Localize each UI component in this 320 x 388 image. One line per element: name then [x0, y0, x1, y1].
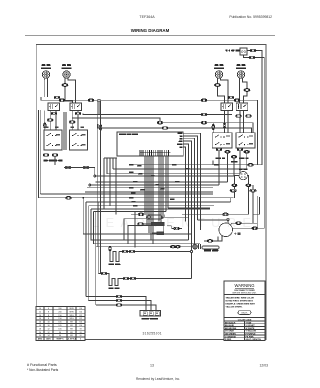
EOC right wires [183, 133, 200, 250]
wires small boxes to infinite switches left [50, 110, 78, 150]
interior fan wire [96, 246, 198, 248]
svg-text:150: 150 [58, 318, 61, 320]
wire left feeder a [38, 110, 40, 198]
diagram frame [36, 45, 266, 340]
broil feed connector [109, 246, 111, 251]
svg-text:90: 90 [59, 332, 61, 334]
latch small box [157, 232, 164, 235]
interior fan body [202, 246, 219, 249]
motor label [234, 233, 240, 235]
svg-text:16: 16 [39, 318, 41, 320]
svg-text:#12: #12 [79, 318, 82, 320]
svg-text:SEW: SEW [69, 311, 74, 313]
wire RR leads [218, 78, 229, 103]
wire oven light return [244, 55, 265, 228]
svg-text:105: 105 [58, 322, 61, 324]
surface unit RF [42, 71, 49, 80]
terminal block [140, 311, 161, 317]
svg-text:GN-YL: GN-YL [241, 313, 248, 315]
switch terminal labels left [45, 127, 84, 128]
latch connector right [171, 227, 182, 230]
svg-text:Y YELLOW: Y YELLOW [246, 331, 256, 333]
svg-text:10: 10 [47, 325, 49, 327]
oven light box [240, 48, 247, 55]
svg-text:V VIOLET: V VIOLET [246, 325, 256, 327]
svg-text:WARNING: WARNING [234, 283, 254, 288]
bake right wire [120, 278, 192, 280]
bus y114 [83, 114, 232, 115]
node broil bake [190, 250, 192, 278]
svg-text:SRG: SRG [69, 315, 74, 317]
label electronic oven control [119, 133, 138, 135]
svg-text:#10: #10 [79, 322, 82, 324]
bake element label [109, 288, 120, 290]
warning title underline [235, 287, 254, 289]
EOC pin header comb [140, 150, 171, 156]
svg-text:#6: #6 [79, 335, 81, 337]
svg-text:NOTED FIRST, STRIPE NEXT.: NOTED FIRST, STRIPE NEXT. [226, 301, 254, 303]
color code table [224, 321, 265, 341]
svg-text:SRG: SRG [69, 318, 74, 320]
svg-text:12: 12 [47, 328, 49, 330]
oven sensor connector [138, 213, 144, 216]
svg-text:BU BLUE: BU BLUE [225, 325, 235, 327]
svg-text:O ORANGE: O ORANGE [225, 335, 237, 338]
surface unit LR label [237, 64, 246, 66]
svg-text:AWG: AWG [46, 338, 51, 341]
connectors on bus y122 [157, 121, 207, 124]
svg-text:GY GRAY: GY GRAY [225, 330, 235, 333]
bake feed connector [101, 272, 107, 275]
wire RF leads [45, 78, 48, 97]
connector motor right [252, 227, 258, 230]
EOC right pin labels [177, 133, 183, 148]
wire switch drops to mesh [97, 101, 100, 274]
stub wire x213 [212, 123, 215, 133]
svg-text:TEMP°C: TEMP°C [56, 339, 64, 341]
connector on oven light feed [250, 49, 256, 52]
svg-text:18: 18 [39, 325, 41, 327]
svg-text:10: 10 [39, 308, 41, 310]
footer functional parts [27, 363, 59, 372]
connector row below left infinite switches [43, 154, 89, 169]
oven light label [226, 50, 241, 52]
mesh bus wires [39, 165, 263, 212]
connector row below right infinite switches [216, 148, 249, 158]
wire switch drop d [55, 156, 95, 175]
svg-text:8: 8 [48, 311, 49, 313]
lamp connectors small [232, 184, 251, 187]
color code entries [225, 321, 262, 341]
warning title [233, 283, 257, 295]
surface unit RF label [42, 64, 51, 66]
switch LF contacts box [70, 103, 82, 110]
warning box [224, 281, 265, 341]
svg-text:8: 8 [48, 318, 49, 320]
svg-text:UL STYLE: UL STYLE [67, 339, 77, 341]
right bundle verticals [213, 151, 247, 185]
node on bus L1 [98, 99, 100, 114]
broil feed wire [109, 247, 111, 252]
svg-text:6: 6 [48, 308, 49, 310]
right lower verticals [231, 196, 260, 228]
infinite switch RF box [44, 130, 62, 150]
svg-text:16: 16 [39, 322, 41, 324]
svg-text:YELLOW STRIPE.: YELLOW STRIPE. [226, 307, 243, 309]
wire left feeder c [44, 111, 46, 131]
motor top right wire [231, 223, 258, 224]
wire gauge table text [38, 308, 82, 341]
lamp connectors large [230, 189, 256, 192]
bake element [109, 279, 120, 286]
connectors on bus y114 [201, 113, 207, 116]
terminal feed connectors [116, 295, 122, 306]
surface unit RR label [215, 64, 224, 66]
terminal block label [142, 318, 159, 320]
svg-text:Publication No. 5995399812: Publication No. 5995399812 [229, 15, 272, 19]
connector on sensor right wire [223, 213, 229, 216]
motor node [198, 219, 230, 224]
infinite switch LF box [70, 130, 88, 150]
svg-text:BR BROWN: BR BROWN [225, 328, 237, 330]
broil right wire [119, 251, 190, 253]
broil element label [109, 264, 121, 266]
svg-text:13: 13 [150, 364, 154, 368]
connector on oven light return [249, 56, 255, 59]
latch interlock connector [138, 223, 144, 226]
header rule [25, 35, 275, 37]
wires small boxes to infinite switches right [225, 110, 244, 132]
wire left feeder b [39, 110, 41, 194]
wire oven light feed [247, 51, 262, 165]
switch LR contacts box [236, 103, 248, 110]
surface unit RR [215, 71, 222, 80]
wire LF leads [65, 78, 76, 103]
connector row mid left [44, 112, 102, 130]
svg-text:Rendered by LeadVenture, Inc.: Rendered by LeadVenture, Inc. [136, 377, 180, 381]
svg-text:12/03: 12/03 [260, 364, 269, 368]
warning paragraph [226, 297, 256, 309]
broil element [110, 252, 119, 262]
svg-text:GN-YL GRN/YEL: GN-YL GRN/YEL [246, 339, 262, 341]
infinite switch LR box [236, 133, 255, 148]
svg-text:14: 14 [39, 315, 41, 317]
svg-text:18: 18 [39, 328, 41, 330]
surface unit LF [63, 71, 70, 80]
svg-text:P PURPLE: P PURPLE [246, 334, 257, 336]
svg-text:#14: #14 [79, 311, 82, 313]
capacitor bars [199, 244, 201, 249]
mesh nodes [83, 175, 96, 199]
svg-text:#12: #12 [79, 315, 82, 317]
svg-text:T TAN: T TAN [246, 321, 252, 324]
bus y128 [98, 124, 252, 133]
svg-text:R RED: R RED [225, 339, 232, 341]
nested corner wires [124, 208, 210, 248]
svg-text:WIRING DIAGRAM: WIRING DIAGRAM [131, 28, 170, 33]
latch interlock box [138, 223, 164, 226]
svg-text:105: 105 [58, 328, 61, 330]
staircase top wires [104, 157, 117, 159]
label LR surface sw [239, 158, 249, 160]
svg-text:BEFORE SERVICING UNIT.: BEFORE SERVICING UNIT. [233, 293, 257, 295]
loop bottom wires [83, 198, 200, 305]
svg-text:90: 90 [59, 335, 61, 337]
electronic oven control box [117, 132, 183, 156]
connector on y197 [66, 196, 72, 199]
motor right wire [233, 227, 265, 229]
surface unit LR [237, 71, 244, 80]
bake wire connectors [123, 277, 136, 280]
svg-text:#8: #8 [79, 332, 81, 334]
oven sensor wire [131, 213, 146, 215]
oven lamp left wire [234, 176, 239, 198]
surface unit LF label [62, 64, 71, 66]
sensor to right wire [182, 196, 259, 214]
svg-text:316255J01: 316255J01 [143, 332, 162, 336]
connector on bus y128 [162, 127, 168, 130]
svg-text:105: 105 [58, 325, 61, 327]
svg-text:BK BLACK: BK BLACK [225, 321, 236, 324]
broil wire connectors [122, 250, 135, 253]
connector motor bottom [207, 240, 213, 243]
connector row above right switch boxes [228, 96, 234, 99]
staircase verticals below EOC [104, 158, 116, 214]
oven lamp [239, 171, 247, 179]
terminal feed wires [86, 297, 156, 311]
label RF surface sw [44, 160, 63, 162]
svg-text:8: 8 [48, 315, 49, 317]
comb drop wires [145, 156, 168, 244]
convection motor [219, 223, 233, 237]
connector row above left switch boxes [54, 96, 60, 99]
switch RF contacts box [48, 103, 60, 110]
svg-text:14: 14 [47, 335, 49, 337]
connector on LR lead [244, 89, 250, 92]
svg-text:# Functional Parts: # Functional Parts [27, 363, 57, 367]
fan connectors [170, 245, 180, 248]
svg-text:#10: #10 [79, 325, 82, 327]
svg-text:EXAMPLE: GREEN WIRE WITH: EXAMPLE: GREEN WIRE WITH [226, 303, 256, 306]
connector motor top right [236, 222, 242, 225]
svg-text:* Non-Illustrated Parts: * Non-Illustrated Parts [27, 368, 59, 372]
oven lamp right wire [247, 176, 253, 224]
interior fan label [204, 250, 218, 252]
svg-text:PK PINK: PK PINK [246, 336, 255, 338]
oven sensor probe [147, 215, 163, 219]
svg-text:#8: #8 [79, 328, 81, 330]
oven lamp label [239, 168, 248, 170]
svg-text:12: 12 [47, 332, 49, 334]
bus y122 [72, 118, 253, 133]
svg-text:200: 200 [58, 308, 61, 310]
connector on RR lead [215, 84, 221, 87]
wire LR leads [240, 78, 248, 103]
bake feed wire [98, 274, 109, 279]
connector row mid right [223, 115, 251, 128]
svg-text:SEW: SEW [69, 308, 74, 310]
svg-text:W WHITE: W WHITE [246, 328, 256, 330]
svg-text:TEF364A: TEF364A [139, 15, 155, 19]
svg-text:#14: #14 [79, 308, 82, 310]
latch wire loop [152, 226, 171, 233]
svg-text:200: 200 [58, 311, 61, 313]
svg-text:10: 10 [47, 322, 49, 324]
connector y164 [248, 163, 254, 166]
svg-text:GN GREEN: GN GREEN [225, 334, 236, 336]
wire gauge table [36, 306, 85, 340]
svg-text:12: 12 [39, 311, 41, 313]
label below right switches [231, 161, 238, 163]
label RR surface sw [216, 158, 226, 160]
svg-text:20: 20 [39, 332, 41, 334]
motor bottom wire [204, 236, 222, 241]
svg-text:150: 150 [58, 315, 61, 317]
svg-text:20: 20 [39, 335, 41, 337]
switch RR contacts box [221, 103, 233, 110]
wire color labels mesh [129, 164, 219, 207]
svg-text:AWG: AWG [38, 338, 43, 341]
grommet [193, 244, 198, 249]
GN-YL tag [238, 311, 251, 315]
sensor link wire [153, 205, 189, 217]
svg-text:TRACER WIRE: WIRE COLOR: TRACER WIRE: WIRE COLOR [226, 297, 255, 300]
connector on LF lead [62, 84, 68, 87]
bus L1 wire [41, 97, 258, 165]
connectors on bus L1 [59, 99, 240, 102]
infinite switch RR box [212, 133, 232, 148]
